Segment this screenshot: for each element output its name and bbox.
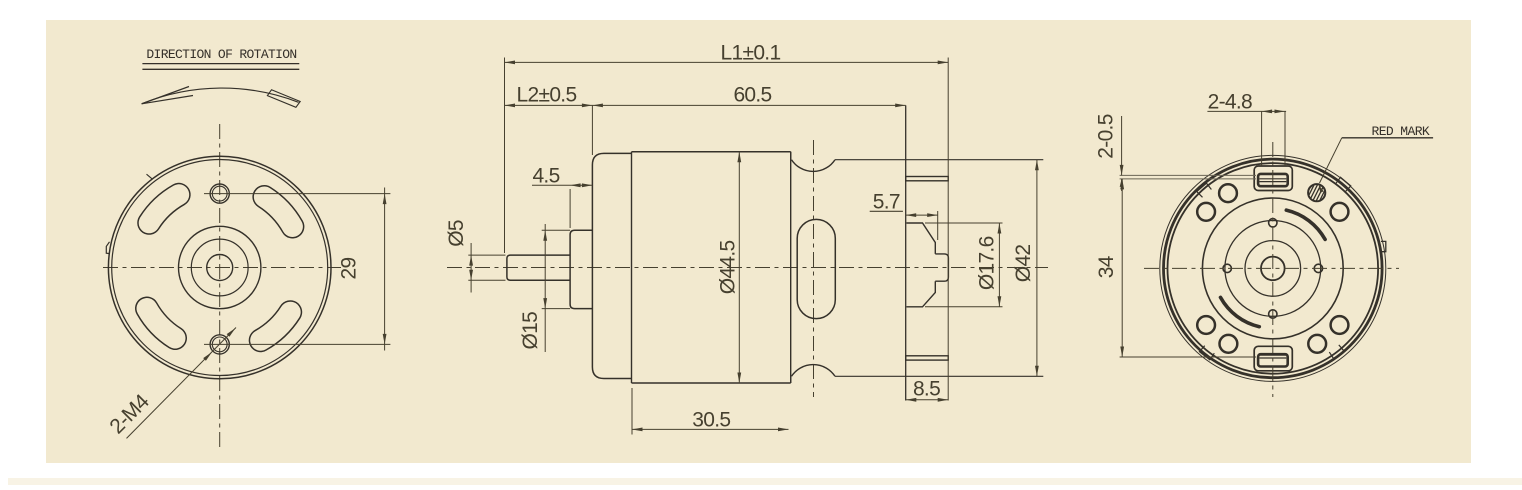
svg-text:5.7: 5.7 bbox=[873, 191, 900, 214]
dim 8.5 line bbox=[906, 399, 948, 401]
direction underline 2 bbox=[142, 68, 299, 70]
svg-text:29: 29 bbox=[338, 258, 361, 280]
top notch arc bbox=[791, 152, 835, 172]
direction underline 1 bbox=[142, 63, 299, 65]
dim 30.5 ext left bbox=[631, 388, 633, 435]
dim dia44.5 arrow top bbox=[737, 152, 741, 163]
svg-text:Ø17.6: Ø17.6 bbox=[976, 236, 999, 290]
dim 2-4.8 ext right bbox=[1284, 111, 1286, 166]
dim 30.5 line bbox=[632, 428, 789, 430]
vent hole at 120.8 deg bbox=[1219, 184, 1237, 202]
front bell outline bbox=[592, 153, 631, 378]
dim 2-4.8 line bbox=[1207, 110, 1286, 112]
dim 30.5 arrow right bbox=[778, 428, 789, 432]
vent slot 2 fill bbox=[149, 195, 179, 223]
dim L1 arrow left bbox=[505, 61, 516, 65]
can bottom edge bbox=[632, 382, 791, 384]
bearing boss outline bbox=[570, 230, 592, 308]
dim L2 arrow left bbox=[505, 104, 516, 108]
dim dia17.6 line bbox=[998, 223, 1000, 307]
left view horizontal centerline bbox=[103, 267, 341, 269]
bottom mounting hole outer bbox=[210, 335, 229, 354]
dim 60.5 arrow left bbox=[592, 104, 603, 108]
left view outer circle bbox=[108, 156, 331, 379]
svg-text:34: 34 bbox=[1095, 255, 1118, 278]
bottom hole centerline / 29 extension bbox=[204, 343, 390, 345]
dim dia42 line bbox=[1036, 160, 1038, 377]
red mark leader arrow bbox=[1319, 185, 1324, 193]
2-M4 leader arrow at hole bbox=[203, 352, 212, 361]
dim dia15 arrow bottom bbox=[543, 298, 547, 309]
dim L1 line bbox=[505, 61, 949, 63]
vent hole at 220.3 deg bbox=[1197, 316, 1215, 334]
dim dia15 arrow top bbox=[543, 230, 547, 241]
end cap outer circle bbox=[1164, 159, 1383, 378]
brush card screw hole 4 bbox=[1269, 310, 1277, 318]
svg-text:8.5: 8.5 bbox=[913, 378, 940, 401]
rear housing bottom edge / dia42 bottom extension bbox=[835, 375, 1043, 377]
dim 34 arrow top bbox=[1120, 179, 1124, 190]
rotation arrow arc bbox=[142, 88, 299, 104]
dim dia5 arrow bottom bbox=[469, 270, 473, 281]
dim 4.5 arrow right bbox=[582, 183, 593, 187]
rear boss bottom profile bbox=[906, 281, 935, 307]
can edge thin circle bbox=[1160, 155, 1386, 381]
dim dia17.6 arrow bottom bbox=[998, 296, 1002, 307]
svg-text:RED MARK: RED MARK bbox=[1372, 124, 1430, 139]
rim tab lower-right bbox=[1329, 345, 1344, 359]
dim dia17.6 ext top bbox=[925, 222, 1003, 224]
vent slot 2 outline bbox=[149, 195, 179, 223]
dim 34 arrow bottom bbox=[1120, 347, 1124, 358]
terminal rear-view bottom bbox=[1254, 346, 1292, 371]
dim dia5 ext bottom bbox=[468, 279, 505, 281]
svg-text:L1±0.1: L1±0.1 bbox=[721, 42, 781, 65]
dim dia17.6 arrow top bbox=[998, 223, 1002, 234]
dim dia44.5 line bbox=[738, 152, 740, 383]
right view vertical centerline bbox=[1272, 142, 1274, 397]
vent slot 3 outline bbox=[147, 308, 175, 338]
rim tab upper-right bbox=[1336, 177, 1351, 191]
brush ring circle bbox=[1202, 198, 1343, 339]
dim 4.5 arrow left bbox=[570, 183, 581, 187]
vent slot 4 outline bbox=[261, 312, 291, 340]
shaft hole bbox=[207, 255, 233, 281]
dim 5.7 arrow left bbox=[906, 213, 917, 217]
brush bulge stadium bbox=[797, 219, 835, 318]
shaft outline bbox=[507, 255, 570, 280]
2-M4 leader arrow end bbox=[227, 328, 236, 337]
top hole centerline / 29 extension bbox=[204, 193, 390, 195]
vent slot 4 fill bbox=[261, 312, 291, 340]
dim 2-4.8 ext left bbox=[1261, 111, 1263, 166]
end cap inner rim circle bbox=[1168, 163, 1379, 374]
dim dia15 line bbox=[544, 224, 546, 352]
top mounting hole inner bbox=[212, 186, 227, 201]
dim 30.5 arrow left bbox=[632, 428, 643, 432]
faint page edge strip bottom bbox=[8, 478, 1522, 485]
dim 4.5 line bbox=[532, 184, 592, 186]
left view inner rim circle bbox=[112, 160, 328, 376]
dim 29 arrow bottom bbox=[383, 334, 387, 345]
dim 29 arrow top bbox=[383, 194, 387, 205]
dim 2-0.5 line upper bbox=[1121, 116, 1123, 175]
dim 5.7 underline bbox=[870, 210, 903, 212]
bell-can seam line bbox=[631, 152, 633, 383]
svg-text:L2±0.5: L2±0.5 bbox=[517, 84, 577, 107]
dim 2-4.8 arrow left bbox=[1262, 110, 1273, 114]
thick arc lower-left bbox=[1221, 297, 1260, 326]
dim 5.7 line bbox=[906, 214, 938, 216]
front bell face extension line bbox=[591, 105, 593, 155]
L1/L2 left extension line bbox=[504, 58, 506, 254]
dim L2 + 60.5 line bbox=[505, 104, 906, 106]
vent hole at 319.7 deg bbox=[1331, 316, 1349, 334]
rear housing top edge / dia42 top extension bbox=[835, 159, 1043, 161]
thick arc upper-right bbox=[1286, 210, 1325, 239]
dim 34 bottom ext bbox=[1120, 356, 1256, 358]
dim dia42 arrow top bbox=[1035, 160, 1039, 171]
vent slot 1 fill bbox=[264, 197, 292, 227]
rim tick upper-left bbox=[147, 174, 153, 179]
svg-text:2-0.5: 2-0.5 bbox=[1095, 114, 1118, 158]
can top edge bbox=[632, 151, 791, 153]
vent hole at 300.5 deg bbox=[1308, 335, 1326, 353]
svg-text:Ø44.5: Ø44.5 bbox=[717, 241, 740, 295]
vent slot 1 outline bbox=[264, 197, 292, 227]
bottom notch arc bbox=[791, 365, 835, 383]
center hole rear bbox=[1261, 257, 1285, 281]
center boss inner circle bbox=[191, 239, 248, 296]
left view vertical centerline bbox=[219, 124, 221, 450]
right edge key bump bbox=[1381, 241, 1386, 251]
dim L2 arrow right bbox=[582, 104, 593, 108]
red mark underline bbox=[1342, 137, 1433, 139]
dim 2-0.5 line lower bbox=[1121, 179, 1123, 191]
dim dia42 arrow bottom bbox=[1035, 366, 1039, 377]
bearing boss circle rear bbox=[1245, 241, 1301, 297]
dim 5.7 ext bbox=[937, 211, 939, 240]
dim 2-0.5 arrow up bbox=[1120, 179, 1124, 187]
dim dia44.5 arrow bottom bbox=[737, 373, 741, 384]
brush card screw hole 3 bbox=[1223, 264, 1231, 272]
center boss circle bbox=[179, 226, 261, 308]
dim 2-4.8 arrow right bbox=[1275, 110, 1286, 114]
rear bushing nub bbox=[935, 254, 948, 281]
rear housing vertical centerline bbox=[813, 140, 815, 397]
dim 8.5 arrow right bbox=[938, 398, 949, 402]
dim 4.5 ext line bbox=[569, 189, 571, 228]
brush card screw hole 2 bbox=[1269, 219, 1277, 227]
rim notch left bbox=[106, 242, 110, 254]
dim dia5 line bbox=[470, 243, 472, 293]
rim tab lower-left bbox=[1199, 346, 1214, 360]
svg-text:Ø5: Ø5 bbox=[445, 220, 468, 247]
terminal side-view bottom bbox=[906, 356, 949, 360]
dim 5.7 arrow right bbox=[927, 213, 938, 217]
terminal thickness line upper bbox=[1120, 174, 1256, 176]
dim 60.5 arrow right bbox=[895, 104, 906, 108]
rim tab upper-left bbox=[1197, 183, 1212, 197]
top mounting hole outer bbox=[210, 184, 229, 203]
terminal side-view top bbox=[906, 177, 949, 181]
vent hole at 40.3 deg bbox=[1331, 203, 1349, 221]
dim 2-0.5 arrow down bbox=[1120, 165, 1124, 176]
svg-text:Ø15: Ø15 bbox=[519, 312, 542, 350]
dim dia17.6 ext bottom bbox=[925, 306, 1003, 308]
svg-text:4.5: 4.5 bbox=[532, 165, 559, 188]
brush card circle bbox=[1225, 221, 1321, 317]
dim 29 line bbox=[384, 188, 386, 351]
vent hole at 239.5 deg bbox=[1220, 335, 1238, 353]
terminal thickness line lower bbox=[1120, 178, 1256, 180]
svg-text:30.5: 30.5 bbox=[692, 409, 730, 432]
L1 right extension line bbox=[947, 58, 949, 401]
dim dia15 ext top bbox=[542, 229, 570, 231]
dim L1 arrow right bbox=[938, 61, 949, 65]
svg-text:60.5: 60.5 bbox=[733, 84, 771, 107]
2-M4 leader line bbox=[127, 328, 237, 439]
red mark leader bbox=[1320, 138, 1342, 183]
dim dia5 arrow top bbox=[469, 255, 473, 266]
svg-text:DIRECTION OF ROTATION: DIRECTION OF ROTATION bbox=[146, 47, 296, 62]
can rear seam line bbox=[790, 152, 792, 383]
rear face line bbox=[905, 105, 907, 400]
right view horizontal centerline bbox=[1144, 267, 1399, 269]
vent hole at 139.7 deg bbox=[1197, 203, 1215, 221]
vent slot 3 fill bbox=[147, 308, 175, 338]
svg-text:2-4.8: 2-4.8 bbox=[1208, 91, 1252, 114]
terminal rear-view top bbox=[1254, 166, 1292, 191]
dim 8.5 arrow left bbox=[906, 398, 917, 402]
dim dia15 ext bottom bbox=[542, 308, 570, 310]
dim 34 line bbox=[1121, 179, 1123, 357]
bottom mounting hole inner bbox=[212, 337, 227, 352]
rear boss top profile bbox=[906, 223, 935, 254]
middle horizontal centerline bbox=[447, 267, 1048, 269]
brush card screw hole 1 bbox=[1314, 264, 1322, 272]
dim dia5 ext top bbox=[468, 254, 505, 256]
rotation arrowhead left bbox=[142, 87, 193, 104]
rotation arrow tail bbox=[267, 90, 300, 108]
svg-text:Ø42: Ø42 bbox=[1012, 245, 1035, 283]
